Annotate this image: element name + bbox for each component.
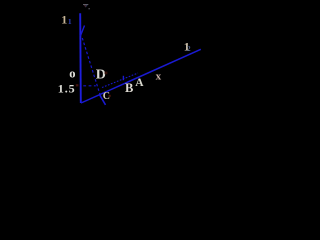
line l1 top solid segment (80, 26, 84, 37)
vertical axis line (79, 13, 82, 103)
svg-text:o: o (69, 66, 75, 80)
svg-text:x: x (156, 71, 162, 83)
horizontal dashed segment at 1.5 level (83, 85, 96, 87)
svg-text:D: D (96, 68, 106, 83)
x-axis main slanted line (81, 49, 201, 103)
faint tick near arrow (88, 8, 90, 9)
small vertical dash near B (122, 76, 124, 80)
svg-text:2: 2 (187, 44, 191, 53)
svg-text:A: A (135, 77, 144, 89)
line l2 (upper dotted slanted line) (102, 73, 138, 88)
svg-text:B: B (125, 81, 133, 95)
jpeg noise dot left of D (105, 72, 108, 75)
svg-text:1: 1 (61, 13, 67, 27)
svg-text:1: 1 (68, 17, 72, 26)
svg-text:1.5: 1.5 (58, 82, 76, 96)
line l1 solid segment below C (99, 94, 105, 105)
line l1 dashed middle segment (82, 38, 100, 95)
jpeg noise dot left of dashes (76, 84, 79, 86)
axis arrow (down-pointing, top of figure) (83, 4, 88, 7)
jpeg noise dot right of C (109, 95, 111, 97)
